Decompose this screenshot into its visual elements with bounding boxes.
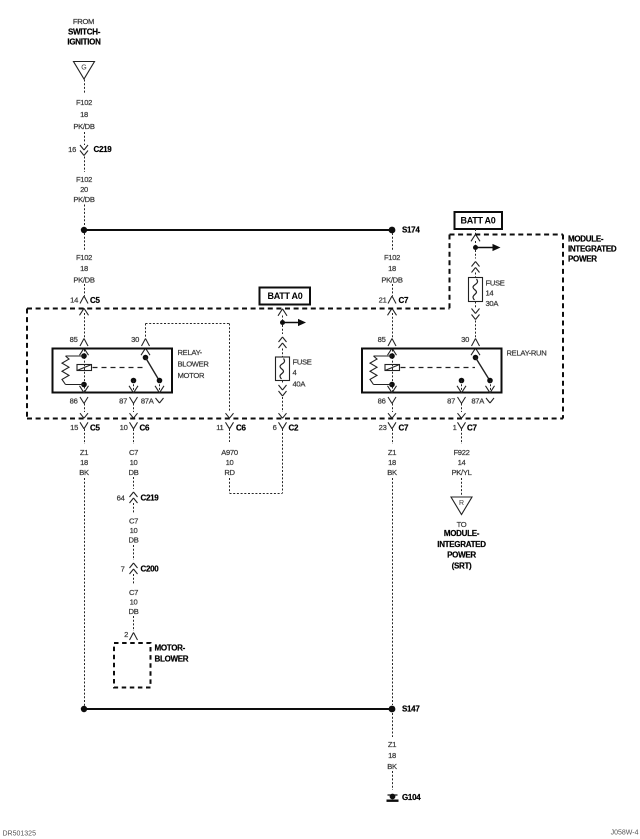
svg-text:30: 30: [461, 335, 469, 344]
svg-text:BATT A0: BATT A0: [461, 215, 496, 225]
svg-text:DB: DB: [129, 535, 139, 544]
svg-text:POWER: POWER: [568, 254, 597, 263]
svg-text:C7: C7: [129, 448, 138, 457]
svg-text:G104: G104: [402, 793, 421, 802]
svg-text:G: G: [81, 65, 86, 72]
svg-text:BK: BK: [387, 762, 397, 771]
svg-text:Z1: Z1: [388, 448, 396, 457]
svg-text:6: 6: [273, 423, 277, 432]
svg-text:BLOWER: BLOWER: [155, 654, 189, 663]
svg-text:Z1: Z1: [388, 740, 396, 749]
svg-text:Z1: Z1: [80, 448, 88, 457]
svg-text:F102: F102: [76, 253, 92, 262]
svg-text:87: 87: [119, 396, 127, 405]
svg-text:C2: C2: [289, 424, 299, 433]
svg-text:86: 86: [70, 396, 78, 405]
svg-text:14: 14: [458, 458, 466, 467]
svg-text:MOTOR: MOTOR: [178, 371, 205, 380]
svg-text:C7: C7: [467, 424, 477, 433]
svg-text:FUSE: FUSE: [486, 278, 505, 287]
svg-text:DR501325: DR501325: [3, 830, 37, 837]
svg-text:85: 85: [70, 335, 78, 344]
svg-text:DB: DB: [129, 468, 139, 477]
svg-text:64: 64: [117, 493, 125, 502]
svg-text:FROM: FROM: [73, 17, 94, 26]
svg-text:14: 14: [70, 295, 78, 304]
svg-text:MODULE-: MODULE-: [444, 529, 480, 538]
svg-text:F102: F102: [76, 98, 92, 107]
svg-text:PK/DB: PK/DB: [73, 195, 95, 204]
svg-text:86: 86: [378, 396, 386, 405]
svg-text:IGNITION: IGNITION: [67, 37, 101, 46]
svg-text:BK: BK: [387, 468, 397, 477]
svg-text:30: 30: [131, 335, 139, 344]
svg-text:18: 18: [80, 110, 88, 119]
svg-text:PK/YL: PK/YL: [451, 468, 471, 477]
svg-text:C6: C6: [236, 424, 246, 433]
svg-text:A970: A970: [221, 448, 238, 457]
svg-text:BK: BK: [79, 468, 89, 477]
svg-text:BLOWER: BLOWER: [178, 359, 210, 368]
svg-text:87A: 87A: [141, 396, 155, 405]
svg-text:SWITCH-: SWITCH-: [68, 27, 101, 36]
svg-text:10: 10: [120, 423, 128, 432]
svg-text:23: 23: [379, 423, 387, 432]
svg-text:C5: C5: [90, 424, 100, 433]
svg-text:DB: DB: [129, 607, 139, 616]
svg-text:18: 18: [388, 751, 396, 760]
svg-text:C6: C6: [140, 424, 150, 433]
svg-text:C5: C5: [90, 296, 100, 305]
svg-text:14: 14: [486, 288, 494, 297]
svg-text:C200: C200: [141, 564, 160, 573]
svg-text:15: 15: [70, 423, 78, 432]
svg-text:R: R: [459, 500, 464, 507]
svg-text:F102: F102: [76, 175, 92, 184]
svg-text:C7: C7: [399, 424, 409, 433]
svg-text:1: 1: [453, 423, 457, 432]
svg-text:INTEGRATED: INTEGRATED: [437, 540, 486, 549]
svg-text:21: 21: [379, 295, 387, 304]
svg-text:18: 18: [388, 458, 396, 467]
svg-text:C7: C7: [129, 516, 138, 525]
svg-text:10: 10: [130, 597, 138, 606]
svg-text:PK/DB: PK/DB: [381, 275, 403, 284]
svg-text:(SRT): (SRT): [452, 561, 472, 570]
svg-text:18: 18: [80, 264, 88, 273]
svg-text:40A: 40A: [293, 379, 307, 388]
svg-text:16: 16: [68, 145, 76, 154]
svg-text:18: 18: [80, 458, 88, 467]
svg-text:RD: RD: [224, 468, 235, 477]
svg-text:10: 10: [130, 458, 138, 467]
svg-text:INTEGRATED: INTEGRATED: [568, 244, 617, 253]
svg-text:TO: TO: [457, 520, 467, 529]
svg-text:20: 20: [80, 185, 88, 194]
svg-text:S147: S147: [402, 704, 420, 713]
svg-text:10: 10: [130, 526, 138, 535]
svg-text:18: 18: [388, 264, 396, 273]
svg-text:MOTOR-: MOTOR-: [155, 643, 186, 652]
svg-text:S174: S174: [402, 225, 420, 234]
svg-text:10: 10: [226, 458, 234, 467]
svg-text:FUSE: FUSE: [293, 357, 312, 366]
svg-text:11: 11: [216, 423, 223, 432]
svg-text:30A: 30A: [486, 299, 500, 308]
svg-text:POWER: POWER: [447, 550, 476, 559]
svg-text:J058W-4: J058W-4: [611, 829, 639, 836]
svg-text:BATT A0: BATT A0: [268, 291, 303, 301]
svg-text:4: 4: [293, 368, 297, 377]
svg-text:PK/DB: PK/DB: [73, 275, 95, 284]
svg-text:RELAY-: RELAY-: [178, 348, 203, 357]
svg-text:MODULE-: MODULE-: [568, 234, 604, 243]
svg-text:C7: C7: [129, 588, 138, 597]
svg-text:C219: C219: [94, 145, 113, 154]
svg-text:PK/DB: PK/DB: [73, 122, 95, 131]
svg-text:F922: F922: [453, 448, 469, 457]
svg-text:C7: C7: [399, 296, 409, 305]
svg-text:87: 87: [447, 396, 455, 405]
svg-text:C219: C219: [141, 493, 160, 502]
svg-text:7: 7: [121, 564, 125, 573]
svg-text:87A: 87A: [471, 396, 485, 405]
svg-text:F102: F102: [384, 253, 400, 262]
svg-text:2: 2: [124, 630, 128, 639]
svg-text:85: 85: [378, 335, 386, 344]
svg-text:RELAY-RUN: RELAY-RUN: [507, 348, 547, 357]
